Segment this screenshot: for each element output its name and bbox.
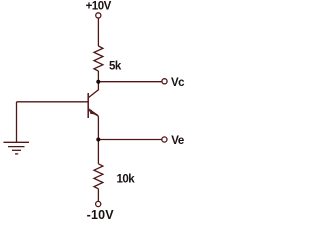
svg-text:Vc: Vc (171, 77, 185, 89)
svg-text:Ve: Ve (171, 135, 184, 147)
svg-text:5k: 5k (109, 60, 122, 72)
svg-text:-10V: -10V (87, 208, 115, 222)
svg-text:+10V: +10V (86, 1, 112, 13)
svg-text:10k: 10k (117, 173, 136, 185)
